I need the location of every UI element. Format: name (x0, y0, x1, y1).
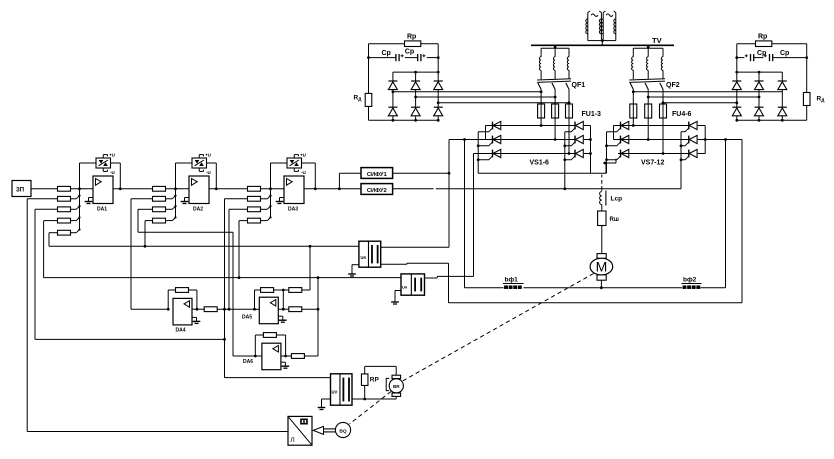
svg-text:DA1: DA1 (97, 207, 107, 213)
thyristor VS9 (607, 149, 629, 159)
wire: Cp line (735, 56, 808, 59)
wire: diode bridge bottom bus (369, 119, 440, 122)
thyristor VS3 (478, 149, 501, 159)
wire: DA5 feedback loops (255, 246, 311, 310)
speed sensor block UV (331, 374, 353, 405)
ground of UA1 (348, 265, 359, 276)
wire: Cp line (367, 56, 440, 59)
wire: VS7-12 right gate bus (680, 132, 683, 189)
limiter of DA2 (192, 155, 207, 172)
wire: feedback v35 loop (35, 209, 226, 340)
setpoint block ZP (12, 181, 31, 197)
svg-text:FU4-6: FU4-6 (672, 111, 692, 118)
fuses FU4-6 (630, 104, 667, 118)
tachogenerator BR (386, 375, 403, 396)
wire: UA1 lower output to DC return (381, 263, 449, 303)
second feedback resistor of DA5 (289, 288, 302, 293)
thyristor VS5 (565, 135, 584, 145)
svg-text:-U: -U (301, 170, 306, 175)
svg-text:DA3: DA3 (288, 207, 298, 213)
wire: stack3 feedback v224 to UV (223, 199, 330, 378)
wire: VS1-6 row lines (449, 126, 575, 154)
svg-text:-U: -U (110, 170, 115, 175)
thyristor VS8 (607, 135, 629, 145)
frequency converter block A (288, 416, 312, 445)
resistor Rp (405, 41, 421, 47)
resistor Rd (365, 93, 372, 106)
wire: DA4 output to DA5 input (192, 308, 259, 311)
wire: UA2 output to bridge row3 (425, 154, 474, 279)
wire: DA4 feedback loop (167, 290, 199, 311)
svg-text:DA2: DA2 (193, 207, 203, 213)
wire: DA3 output to SIFU branch (304, 173, 361, 190)
diode pair, middle column of bridge (755, 72, 764, 120)
svg-text:Rш: Rш (610, 217, 619, 223)
wire: VS1-6 left gate bus (477, 132, 480, 174)
wire: VS1-6 right gate bus (563, 132, 566, 190)
node: AC supply bus (531, 44, 674, 46)
svg-text:+U: +U (109, 153, 115, 158)
input resistor stack of DA2 (153, 186, 190, 223)
wire: DA6 feedback loop (254, 335, 287, 357)
svg-text:QF2: QF2 (666, 82, 680, 89)
wire: DA6 output to v318 (281, 355, 318, 357)
svg-text:Cp: Cp (382, 50, 391, 57)
svg-text:Л: Л (290, 437, 294, 444)
coupling resistor DA4-DA5 (204, 307, 217, 312)
wire: DA1 output to stack 2 (113, 188, 153, 190)
svg-text:Cp: Cp (780, 50, 789, 57)
wire: UV output line (352, 398, 396, 401)
svg-text:СИФУ1: СИФУ1 (367, 172, 388, 178)
limiter of DA1 (96, 155, 111, 172)
resistor RP (361, 374, 368, 399)
wire: feedback v49 line to UA1 (49, 233, 359, 248)
diode pair, last column of bridge (434, 72, 443, 120)
wire: VS1-6 anode collector (584, 126, 592, 174)
wire: DA1 limiter left leg (80, 163, 97, 189)
block SIFU2 (361, 184, 393, 195)
block SIFU1 (361, 168, 393, 179)
wire: stack2 feedback v131 to DA4 input (131, 199, 168, 309)
wire: VS7-12 left gate bus (605, 132, 608, 174)
svg-text:Lcp: Lcp (611, 196, 623, 203)
op-amp DA3 (276, 176, 304, 204)
thyristor VS6 (565, 149, 584, 159)
op-amp DA2 (181, 176, 209, 204)
wire: stack3 feedback v229 (228, 209, 248, 310)
svg-text:UV: UV (332, 390, 338, 395)
feedback resistor of DA4 (176, 288, 189, 293)
svg-text:VS7-12: VS7-12 (641, 160, 664, 167)
svg-text:Rp: Rp (758, 34, 767, 41)
thyristor VS10 (681, 121, 697, 131)
svg-text:-U: -U (206, 170, 211, 175)
wire: stack2 feedback v145 (145, 221, 153, 247)
wire: DA3 limiter right leg / output node (302, 163, 317, 190)
svg-text:Uя: Uя (361, 255, 367, 260)
wire: snubber rails (369, 44, 439, 121)
ground of UV (318, 399, 331, 410)
wire: DA1 limiter right leg / output node (111, 163, 122, 190)
thyristor VS7 (607, 121, 629, 131)
wire: VS7-12 output to DC rails right (705, 138, 742, 303)
svg-text:DA5: DA5 (242, 315, 252, 321)
diode pair, middle column of bridge (411, 72, 420, 120)
wire: dashed drop to Lcp (601, 175, 603, 191)
limiter of DA3 (287, 155, 302, 172)
diode pair, first column of bridge (388, 72, 397, 120)
motor M (590, 254, 613, 281)
ground of UA2 (391, 291, 401, 305)
inductor bf2 (armature winding section) (682, 284, 702, 289)
wire: DA2 output to stack 3 (209, 188, 248, 190)
wire: DA2 limiter right leg / output node (207, 163, 218, 190)
wire: VS7-12 left step (613, 126, 615, 140)
thyristor VS12 (681, 149, 697, 159)
svg-text:+U: +U (300, 153, 306, 158)
diode pair, first column of bridge (732, 72, 741, 120)
thyristor VS1 (478, 121, 501, 131)
svg-text:QF1: QF1 (572, 82, 586, 89)
circuit breaker QF2 (629, 45, 665, 104)
wire: snubber rails (737, 44, 807, 121)
wire: RP top to BR top (365, 366, 397, 375)
input resistor stack of DA3 (248, 186, 285, 223)
svg-text:DA4: DA4 (176, 328, 186, 334)
wire: armature circuit line (upper, via bf1/bf2) (463, 138, 725, 288)
mechanical coupling motor to BR (dashed) (403, 274, 594, 382)
resistor Rd (803, 93, 810, 106)
wire: ZP to R stack 1 (31, 188, 58, 190)
wire: phase lines QF2 to right snubber (632, 90, 782, 104)
arrow BQ to A-block (313, 426, 335, 434)
wire: diode bridge bottom bus (735, 119, 806, 122)
transformer TV primary windings (586, 11, 616, 45)
wire: BR bottom (395, 396, 397, 399)
svg-text:DA6: DA6 (243, 359, 253, 365)
voltage sensor UA1 (359, 241, 381, 267)
wire: diode bridge top bus (393, 71, 440, 74)
mechanical coupling BR to BQ (dashed) (350, 392, 392, 425)
op-amp DA6 (262, 343, 289, 370)
wire: UA1 output up to bridge (381, 140, 449, 248)
shunt resistor Rsh (598, 211, 606, 226)
wire: feedback v27 loop to A-block (27, 199, 288, 432)
inductor Lcp (600, 191, 606, 212)
voltage sensor UA2 (401, 274, 425, 295)
svg-text:M: M (596, 259, 608, 275)
wire: stack3 feedback v239 (239, 221, 248, 278)
wire: SIFU2 output long gate line (393, 188, 681, 190)
thyristor VS4 (565, 121, 584, 131)
wire: feedback v43 line to UA2 (44, 221, 401, 279)
encoder BQ (335, 422, 350, 437)
svg-text:+U: +U (205, 153, 211, 158)
wire: VS1-6 left step (486, 126, 493, 140)
wire: FU1-3 drops to VS1-6 rows (540, 118, 571, 155)
output resistor of DA5 (289, 307, 302, 312)
wire: motor to armature line (600, 280, 603, 289)
svg-text:RP: RP (370, 377, 380, 384)
thyristor VS2 (478, 135, 501, 145)
wire: SIFU1 output to gate risers (393, 172, 451, 175)
wire: DC node under bridges (478, 154, 616, 174)
svg-text:BR: BR (393, 384, 400, 389)
op-amp DA5 (259, 297, 286, 324)
resistor Rp (756, 41, 772, 47)
input resistor stack of DA1 (58, 186, 94, 235)
svg-text:TV: TV (652, 36, 662, 45)
wire: stack2 feedback v138 to DA6 input (138, 209, 262, 356)
wire: VS7-12 anode collector (698, 126, 707, 154)
thyristor VS11 (681, 135, 697, 145)
circuit breaker QF1 (537, 45, 571, 104)
wire: phase lines left snubber to QF1 (392, 90, 571, 104)
feedback resistor of DA5 (261, 288, 274, 293)
svg-text:Rд: Rд (354, 95, 363, 103)
svg-text:bф1: bф1 (505, 277, 519, 284)
diode pair, last column of bridge (778, 72, 787, 120)
output resistor of DA6 (291, 354, 304, 359)
svg-text:Uя: Uя (402, 285, 408, 290)
wire: DA2 limiter left leg (176, 163, 193, 189)
wire: Rsh to motor (601, 226, 603, 254)
wire: VS7-12 row lines (614, 126, 689, 154)
svg-text:FU1-3: FU1-3 (582, 111, 602, 118)
capacitor Cp (first) (395, 54, 397, 61)
fuses FU1-3 (538, 104, 573, 118)
svg-text:Rp: Rp (407, 34, 416, 41)
wire: DA5 output to v318 (278, 278, 319, 356)
inductor bf1 (armature winding section) (503, 284, 524, 289)
svg-text:ЗП: ЗП (16, 188, 24, 194)
wire: diode bridge top bus (735, 71, 782, 74)
svg-text:bф2: bф2 (683, 277, 697, 284)
op-amp DA1 (85, 176, 113, 204)
wire: lower DC return line (449, 302, 743, 304)
svg-text:Rд: Rд (817, 96, 826, 104)
feedback resistor of DA6 (263, 333, 276, 338)
capacitor Cp (second) (769, 54, 771, 61)
svg-text:VS1-6: VS1-6 (530, 160, 550, 167)
svg-text:Cp: Cp (405, 49, 414, 56)
capacitor Cp (first) (750, 54, 752, 61)
op-amp DA4 (173, 298, 200, 325)
svg-text:BQ: BQ (339, 429, 346, 435)
capacitor Cp (second) (417, 54, 419, 61)
wire: DA3 limiter left leg (271, 163, 288, 189)
wire: FU4-6 drops to VS7-12 rows (632, 118, 665, 155)
svg-text:СИФУ2: СИФУ2 (367, 188, 387, 194)
